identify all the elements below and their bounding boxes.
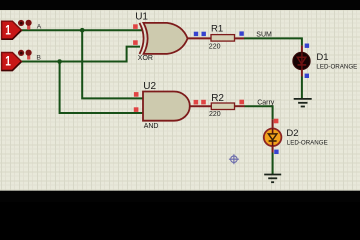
wire D2 to ground bbox=[272, 153, 274, 175]
logic input A (logicstate, value 1) bbox=[2, 21, 22, 39]
logic indicator D2 anode (red) bbox=[274, 119, 279, 124]
resistor R2 bbox=[211, 103, 234, 110]
svg-text:B: B bbox=[36, 54, 41, 61]
ground (below D2) bbox=[264, 175, 281, 183]
svg-text:D1: D1 bbox=[316, 52, 328, 63]
D1 anode pin stub bbox=[301, 46, 303, 54]
logic indicator D1 cathode (blue) bbox=[305, 74, 309, 78]
logicstate B toggle button 1 bbox=[18, 50, 24, 56]
ground (below D1) bbox=[294, 99, 312, 107]
svg-text:1: 1 bbox=[5, 21, 11, 37]
svg-text:D2: D2 bbox=[286, 128, 298, 139]
LED D2 (on, orange) bbox=[264, 129, 282, 147]
logic indicator U2 pin 1 (red) bbox=[134, 92, 139, 97]
schematic background bbox=[0, 10, 360, 191]
svg-text:U1: U1 bbox=[135, 12, 148, 23]
logic indicator U2 output (red) bbox=[194, 100, 199, 105]
logic indicator U1 pin 2 (red) bbox=[133, 40, 138, 45]
logic indicator U1 pin 1 (red) bbox=[133, 24, 138, 29]
logic indicator R1 left pin (blue) bbox=[202, 32, 206, 36]
logic indicator U2 pin 2 (red) bbox=[134, 107, 139, 112]
node A junction bbox=[80, 28, 85, 33]
svg-text:A: A bbox=[37, 24, 42, 31]
svg-text:220: 220 bbox=[209, 111, 221, 118]
D1 cathode pin stub bbox=[301, 69, 303, 76]
R1 right pin stub bbox=[235, 37, 245, 39]
svg-text:U2: U2 bbox=[143, 81, 156, 92]
resistor R1 bbox=[211, 35, 235, 42]
logic indicator D1 anode (blue) bbox=[305, 44, 309, 48]
logic input B (logicstate, value 1) bbox=[2, 53, 22, 71]
wire B (input B toward XOR U1 pin 2) bbox=[22, 47, 141, 62]
svg-text:LED-ORANGE: LED-ORANGE bbox=[316, 64, 357, 71]
R2 right pin stub bbox=[235, 105, 245, 107]
logic indicator D2 cathode (blue) bbox=[274, 150, 278, 154]
svg-text:AND: AND bbox=[144, 123, 159, 130]
wire A branch down to AND U2 pin 1 bbox=[82, 30, 142, 98]
wire Carry net (R2 to D2) bbox=[245, 106, 273, 119]
logic indicator R2 left pin (red) bbox=[201, 100, 206, 105]
node B junction bbox=[57, 59, 62, 64]
logic indicator U1 output (blue) bbox=[194, 32, 198, 36]
svg-text:1: 1 bbox=[5, 53, 11, 69]
logic indicator R2 right pin (red) bbox=[239, 100, 244, 105]
U2 output pin stub bbox=[190, 105, 211, 107]
wire A (input A to XOR U1 pin 1) bbox=[22, 29, 143, 31]
wire SUM net (R1 to D1) bbox=[244, 38, 302, 45]
op XOR gate U1 bbox=[140, 23, 188, 54]
wire D1 to ground bbox=[301, 77, 303, 99]
LED D1 (off, dark) bbox=[293, 52, 310, 69]
svg-text:SUM: SUM bbox=[256, 32, 272, 39]
letterbox top bar bbox=[0, 0, 360, 10]
D2 cathode pin stub bbox=[272, 146, 274, 153]
U1 output pin stub bbox=[188, 37, 211, 39]
svg-text:XOR: XOR bbox=[138, 55, 153, 62]
logicstate A toggle button 2 bbox=[26, 20, 32, 30]
D2 anode pin stub bbox=[272, 119, 274, 129]
logic indicator R1 right pin (blue) bbox=[239, 31, 243, 35]
origin marker bbox=[229, 154, 239, 164]
logicstate A toggle button 1 bbox=[18, 20, 24, 26]
svg-text:LED-ORANGE: LED-ORANGE bbox=[287, 140, 328, 147]
svg-text:R1: R1 bbox=[211, 24, 223, 35]
wire B branch down to AND U2 pin 2 bbox=[60, 62, 143, 114]
svg-text:R2: R2 bbox=[211, 93, 224, 104]
op AND gate U2 bbox=[143, 92, 190, 121]
svg-text:220: 220 bbox=[209, 44, 221, 51]
letterbox bottom bar bbox=[0, 191, 360, 202]
svg-text:Carry: Carry bbox=[257, 100, 275, 107]
logicstate B toggle button 2 bbox=[26, 50, 32, 60]
